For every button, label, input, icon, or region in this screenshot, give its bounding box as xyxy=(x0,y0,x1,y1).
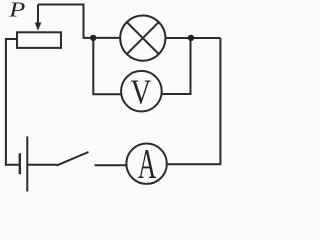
svg-text:P: P xyxy=(8,0,25,22)
svg-text:V: V xyxy=(131,73,151,111)
svg-text:A: A xyxy=(138,140,156,187)
